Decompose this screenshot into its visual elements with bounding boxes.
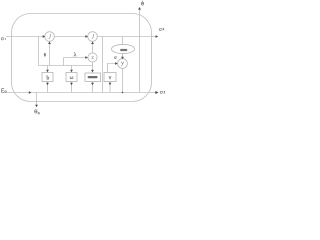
value label inside oscillator ellipse: [120, 49, 127, 51]
wire block K1 top: [47, 66, 49, 73]
wire block K4 bottom: [109, 82, 111, 93]
label B near circle1 riser: [44, 53, 45, 56]
junction circle B: [88, 53, 97, 62]
wire input left: [6, 36, 45, 38]
wire block K4 top L-feed: [108, 64, 118, 73]
value label inside block K1: [47, 75, 49, 79]
oscillator ellipse U1: [112, 44, 135, 53]
block K4: [104, 73, 116, 82]
value label inside block K3: [88, 76, 98, 78]
wire circle1 feedback riser: [49, 43, 51, 66]
arrowhead inline on bottom-left input wire: [29, 91, 31, 94]
arrowhead bottom right output pin: [155, 91, 158, 94]
arrowhead into block K2: [70, 70, 73, 73]
glyph inside S2: [92, 34, 94, 39]
wire block K1 bottom: [47, 82, 49, 93]
wire bottom-left input: [7, 92, 37, 94]
wire circle3 down to bus: [122, 69, 124, 93]
system boundary box: [12, 14, 152, 102]
wire circle2 feedback link: [92, 43, 94, 53]
arrowhead bottom pin down: [35, 105, 38, 108]
wire block K3 bottom: [92, 82, 94, 93]
wire ellipse to circle3: [122, 54, 124, 59]
wire riser bus to lateral feed: [63, 58, 65, 66]
wire top pin riser: [139, 9, 141, 37]
wire right vertical drop: [139, 37, 141, 93]
arrowhead into S1: [43, 35, 46, 38]
glyph inside S1: [49, 34, 51, 39]
arrowhead into S2 from below: [91, 42, 94, 45]
arrowhead into block K3: [91, 70, 94, 73]
label bottom right pin e3: [160, 92, 162, 94]
value label inside block K2: [70, 77, 73, 79]
block K2: [66, 73, 77, 82]
arrowhead into circle C: [115, 62, 118, 65]
arrowhead top output pin: [138, 7, 141, 10]
wire bus mid horizontal: [39, 65, 93, 67]
wire riser from input junction down to bus: [38, 37, 40, 66]
arrowhead into circle B: [85, 56, 88, 59]
label bottom pin theta0: [35, 110, 37, 113]
arrowhead into block K1: [46, 70, 49, 73]
glyph inside circle B: [92, 56, 94, 58]
label top pin theta-dot: [142, 0, 144, 2]
label right mid pin e2: [159, 29, 161, 31]
arrowhead below block K4: [109, 83, 112, 86]
block K1: [42, 73, 53, 82]
wire block K2 bottom: [71, 82, 73, 93]
block K3: [85, 73, 101, 82]
arrowhead below block K3: [91, 83, 94, 86]
label input left e1: [1, 38, 4, 40]
label e near circle C: [114, 57, 116, 59]
value label inside block K4: [109, 76, 111, 79]
wire bottom-right exit: [152, 92, 157, 94]
arrowhead into S1 from below: [48, 42, 51, 45]
wire lateral feed into circle B: [64, 57, 87, 59]
junction dot circle C drop: [122, 92, 124, 94]
wire bottom bus: [37, 92, 152, 94]
wire right exit mid: [152, 36, 157, 38]
wire bottom pin drop: [36, 93, 38, 107]
arrowhead below block K1: [46, 83, 49, 86]
wire circle1 to circle2: [54, 36, 87, 38]
label lambda above lateral feed: [74, 53, 76, 57]
wire branch down to oscillator ellipse: [122, 37, 124, 45]
arrowhead into S2: [85, 35, 88, 38]
summing junction S1: [45, 32, 55, 42]
wire circleB down to block K3: [92, 62, 94, 72]
arrowhead into circle C from top: [121, 57, 124, 59]
summing junction S2: [88, 32, 98, 42]
wire long drop from top wire to bottom bus: [102, 37, 104, 93]
junction circle C: [118, 59, 128, 69]
wire block K2 top: [71, 66, 73, 73]
label input bottom-left E0: [2, 89, 4, 93]
glyph inside circle C: [121, 62, 123, 66]
wire circle2 output to right: [97, 36, 151, 38]
arrowhead right mid output pin: [156, 35, 159, 38]
arrowhead below block K2: [70, 83, 73, 86]
